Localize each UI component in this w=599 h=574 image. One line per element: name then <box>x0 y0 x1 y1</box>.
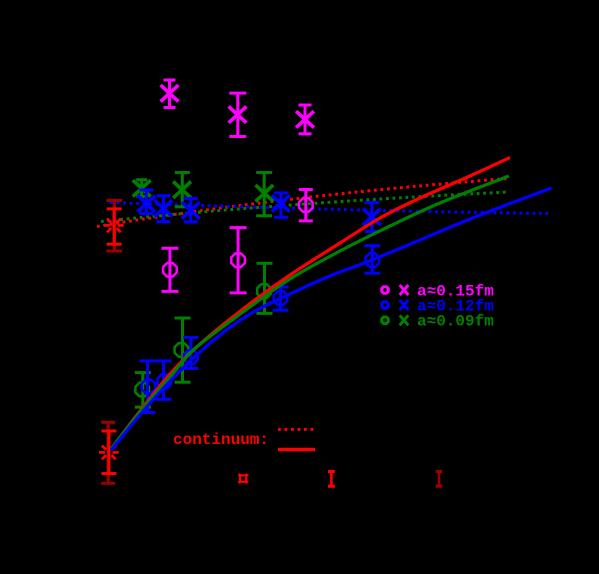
error bar R2 inner (bright red) <box>101 431 116 474</box>
solid red continuum curve <box>111 158 510 450</box>
data point BE (octagon) <box>366 253 380 267</box>
svg-text:continuum:: continuum: <box>173 431 269 449</box>
data point legend-oct-blue (octagon) <box>382 302 389 309</box>
data point BB (octagon) <box>157 375 171 389</box>
error bar BE <box>364 246 380 273</box>
data point BD (octagon) <box>274 291 288 305</box>
data point BX3 (cross) <box>182 202 200 218</box>
legend solid red sample <box>278 448 315 451</box>
data point legend-oct-magenta (octagon) <box>382 287 389 294</box>
error bar MX1 <box>164 80 176 108</box>
error bar BA <box>140 361 156 413</box>
solid green a=0.09fm curve <box>111 176 509 449</box>
data point R1 (fancy star) <box>104 216 124 236</box>
error bar MC2 <box>230 228 247 293</box>
data point GC3 (octagon) <box>257 284 271 298</box>
data point GX1 (cross) <box>133 180 151 196</box>
legend error-bar glyph dark red (systematic) <box>436 472 443 487</box>
data point BX1 (cross) <box>137 196 155 212</box>
error bar GC2 <box>175 318 191 382</box>
error bar BC <box>183 338 198 369</box>
data point BX2 (cross) <box>155 200 173 216</box>
error bar BX4 <box>274 193 288 218</box>
legend error-bar glyph bright red (statistical) <box>328 472 335 487</box>
dotted green a=0.09fm fit line <box>101 192 509 222</box>
data point GX3 (cross) <box>256 185 274 201</box>
data point BC (octagon) <box>184 350 198 364</box>
error bar GX1 <box>136 180 147 197</box>
data point GX2 (cross) <box>173 182 191 198</box>
legend symbol fancy square red (experiment point) <box>239 474 248 483</box>
data point legend-x-blue (cross) <box>400 300 409 310</box>
data point legend-x-magenta (cross) <box>400 285 409 295</box>
error bar MX2 <box>229 93 246 136</box>
data point MC2 (octagon) <box>231 253 245 267</box>
error bar BX2 <box>156 196 170 222</box>
data point MX3 (cross) <box>296 111 314 127</box>
error bar R2 outer (dark red) <box>101 422 115 483</box>
error bar GX3 <box>256 173 272 216</box>
error bar BX1 <box>139 190 153 214</box>
data point legend-x-green (cross) <box>400 315 409 325</box>
solid blue a=0.12fm curve <box>111 188 552 450</box>
data point MC1 (octagon) <box>163 263 177 277</box>
data point MX2 (cross) <box>229 106 247 122</box>
legend dotted red sample <box>278 428 316 431</box>
error bar BX5 <box>365 203 380 232</box>
data point R2 (fancy star) <box>99 443 119 463</box>
error bar GC1 <box>135 373 151 408</box>
svg-text:a≈0.09fm: a≈0.09fm <box>417 313 494 331</box>
error bar R1 inner (bright red) <box>107 209 122 244</box>
data point BA (octagon) <box>142 380 156 394</box>
error bar BX3 <box>184 198 198 222</box>
data point BX5 (cross) <box>363 209 381 225</box>
error bar GC3 <box>257 263 273 313</box>
error bar MX3 <box>299 105 312 134</box>
error bar MC1 <box>161 248 178 291</box>
dotted blue a=0.12fm fit line <box>110 203 549 214</box>
error bar BD <box>273 287 289 310</box>
dotted red continuum-fit line <box>97 179 508 227</box>
data point GC2 (octagon) <box>175 343 189 357</box>
error bar GX2 <box>175 173 190 207</box>
data point MX1 (cross) <box>161 85 179 101</box>
error bar R1 outer (dark red) <box>106 200 122 251</box>
data point BX4 (cross) <box>272 195 290 211</box>
data point MC3 (octagon) <box>299 198 313 212</box>
data point GC1 (octagon) <box>135 383 149 397</box>
data point legend-oct-green (octagon) <box>382 317 389 324</box>
error bar MC3 <box>299 190 313 221</box>
error bar BB <box>156 361 172 399</box>
